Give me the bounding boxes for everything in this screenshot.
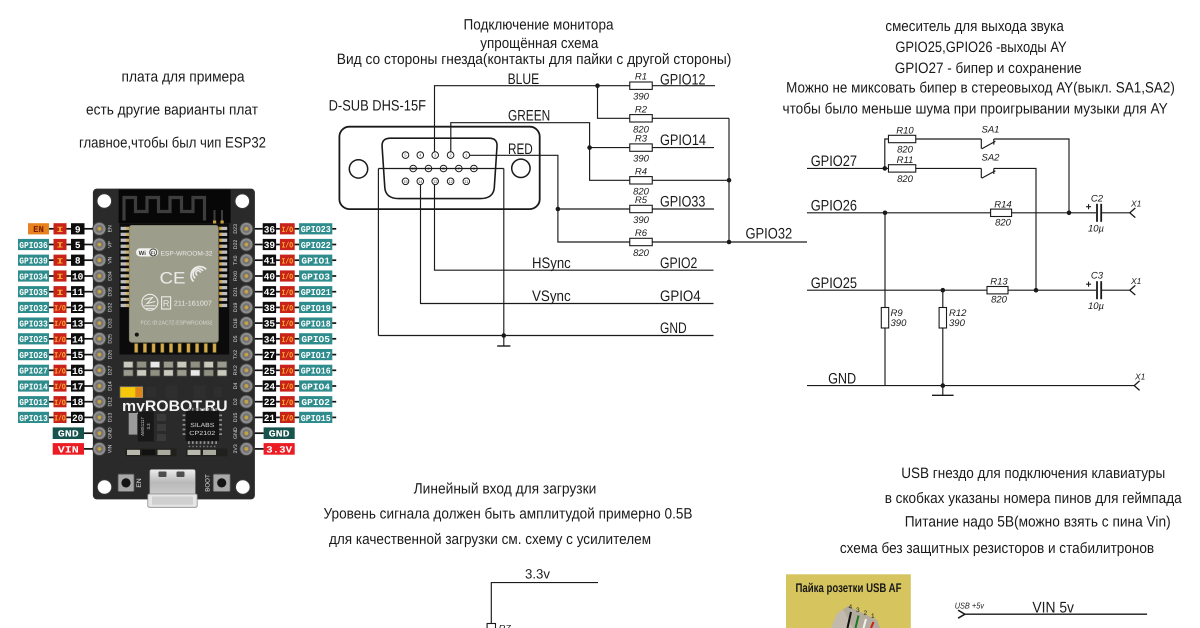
antenna region: [119, 190, 231, 224]
svg-text:упрощённая схема: упрощённая схема: [480, 35, 599, 52]
switch SA2: [981, 168, 995, 178]
svg-text:ESP-WROOM-32: ESP-WROOM-32: [161, 250, 213, 257]
svg-text:GPIO33: GPIO33: [19, 320, 48, 330]
svg-text:25: 25: [264, 366, 276, 377]
svg-text:211-161007: 211-161007: [174, 301, 212, 308]
svg-text:1: 1: [871, 613, 875, 620]
svg-text:D27: D27: [108, 365, 114, 375]
svg-text:GND: GND: [828, 370, 856, 387]
svg-text:D13: D13: [108, 413, 114, 423]
node R4 bus junction: [727, 178, 732, 183]
svg-text:8: 8: [75, 256, 81, 267]
ESP-WROOM-32 module U1: [120, 224, 230, 355]
svg-text:D4: D4: [233, 383, 239, 390]
svg-text:D19: D19: [233, 303, 239, 313]
svg-text:плата для примера: плата для примера: [122, 68, 246, 85]
connector J1 D-SUB DHS-15F outline: [339, 127, 539, 209]
svg-text:R7: R7: [499, 624, 512, 628]
svg-text:18: 18: [72, 397, 84, 408]
svg-text:I/O: I/O: [54, 305, 66, 314]
pin row right GPIO17: [255, 349, 336, 361]
wire R2 to right bus: [652, 117, 729, 119]
wire GND right drop: [503, 169, 505, 336]
svg-text:36: 36: [264, 224, 276, 235]
svg-text:R3: R3: [635, 134, 648, 145]
pin row left GPIO35: [18, 286, 93, 298]
wire RED branch down to R6: [558, 209, 630, 242]
svg-text:I/O: I/O: [282, 352, 294, 361]
svg-text:I/O: I/O: [282, 257, 294, 266]
photo: USB AF soldering: [786, 574, 911, 628]
connector pins row 1 (5,4,3,2,1): [402, 152, 469, 159]
CP2102 USB-UART chip: [183, 408, 222, 448]
svg-text:GPIO23: GPIO23: [301, 225, 331, 235]
wire RED to R5: [558, 208, 630, 210]
svg-text:GPIO39: GPIO39: [19, 257, 48, 267]
node GPIO27 junction: [883, 166, 888, 171]
resistor R12 390 vertical: [942, 290, 944, 385]
svg-text:GPIO2: GPIO2: [301, 398, 330, 408]
wire GPIO25 line: [807, 289, 1096, 291]
pin row left GND: [53, 427, 93, 439]
svg-text:D2: D2: [233, 398, 239, 405]
svg-text:главное,чтобы был чип ESP32: главное,чтобы был чип ESP32: [79, 135, 266, 152]
svg-text:5: 5: [75, 240, 81, 251]
pin row right GPIO18: [255, 318, 336, 330]
svg-text:10µ: 10µ: [1088, 301, 1105, 312]
svg-text:GND: GND: [269, 429, 290, 440]
mounting holes: [97, 194, 250, 495]
wire 3.3v rail: [491, 583, 598, 624]
svg-text:I: I: [57, 257, 64, 266]
svg-text:12: 12: [448, 179, 453, 184]
svg-text:GPIO12: GPIO12: [660, 71, 706, 88]
svg-text:RED: RED: [508, 141, 533, 158]
svg-text:R2: R2: [635, 104, 648, 115]
bottom SMD row: [126, 449, 228, 457]
svg-text:I/O: I/O: [54, 320, 66, 329]
svg-text:820: 820: [897, 174, 914, 185]
svg-text:R6: R6: [635, 228, 648, 239]
wire GND mixer line: [807, 385, 1134, 387]
wire R3 to GPIO14: [652, 147, 714, 149]
svg-text:I/O: I/O: [54, 383, 66, 392]
ground symbol mixer: [942, 386, 944, 396]
svg-text:EN: EN: [108, 225, 114, 232]
svg-text:TX2: TX2: [233, 350, 239, 360]
wire GREEN from pin2: [451, 123, 590, 152]
connector D shell: [382, 138, 497, 198]
wire BLUE to R1: [598, 85, 630, 87]
wire GND left drop: [377, 169, 379, 336]
ground symbol: [503, 336, 505, 347]
svg-text:I: I: [57, 226, 64, 235]
svg-text:9: 9: [75, 224, 81, 235]
svg-text:D5: D5: [233, 335, 239, 342]
svg-text:GPIO25: GPIO25: [19, 335, 48, 345]
svg-text:CP2102: CP2102: [189, 430, 216, 437]
svg-text:I/O: I/O: [282, 242, 294, 251]
svg-text:820: 820: [633, 248, 650, 259]
svg-text:GPIO32: GPIO32: [746, 226, 793, 243]
node RED junction: [556, 207, 561, 212]
svg-text:D14: D14: [108, 381, 114, 391]
svg-text:390: 390: [949, 318, 966, 329]
svg-text:GPIO17: GPIO17: [301, 351, 331, 361]
wire R11 to SA2: [916, 167, 982, 169]
pin row right GPIO22: [255, 239, 336, 251]
svg-text:390: 390: [633, 215, 650, 226]
svg-text:C2: C2: [1091, 193, 1104, 204]
pin row left GPIO26: [18, 349, 93, 361]
wire C3 to X1: [1101, 289, 1130, 291]
svg-text:чтобы было меньше шума при про: чтобы было меньше шума при проигрывании …: [783, 100, 1168, 117]
wire VSync from pin14: [421, 185, 714, 304]
svg-text:GPIO35: GPIO35: [19, 288, 48, 298]
svg-text:GND: GND: [233, 427, 239, 439]
svg-text:24: 24: [264, 382, 276, 393]
svg-text:GPIO16: GPIO16: [301, 367, 331, 377]
svg-text:390: 390: [633, 154, 650, 165]
svg-text:42: 42: [264, 287, 276, 298]
svg-text:GND: GND: [660, 320, 687, 337]
resistor R3 390: [630, 144, 653, 151]
svg-text:38: 38: [264, 303, 276, 314]
svg-text:R5: R5: [635, 195, 648, 206]
svg-text:HSync: HSync: [532, 255, 571, 272]
svg-text:Пайка розетки USB AF: Пайка розетки USB AF: [796, 581, 902, 595]
wire VIN 5v: [965, 613, 1147, 615]
svg-text:R10: R10: [896, 126, 914, 137]
svg-text:3.3: 3.3: [146, 423, 151, 430]
svg-text:15: 15: [403, 179, 408, 184]
svg-text:RX2: RX2: [233, 365, 239, 375]
svg-text:13: 13: [72, 319, 84, 330]
wire R1 to GPIO12: [652, 85, 715, 87]
svg-text:17: 17: [72, 382, 84, 393]
svg-text:820: 820: [995, 217, 1012, 228]
svg-text:GPIO36: GPIO36: [19, 241, 48, 251]
svg-text:RX0: RX0: [233, 271, 239, 281]
wire GREEN to R3: [590, 147, 630, 149]
svg-text:D25: D25: [108, 334, 114, 344]
svg-text:I/O: I/O: [282, 415, 294, 424]
svg-text:D12: D12: [108, 397, 114, 407]
resistor R11 820: [888, 165, 915, 172]
svg-text:820: 820: [897, 145, 914, 156]
svg-text:16: 16: [72, 366, 84, 377]
misc passives: [157, 414, 166, 441]
svg-text:в скобках указаны номера пинов: в скобках указаны номера пинов для геймп…: [885, 490, 1183, 507]
svg-text:I: I: [57, 242, 64, 251]
node C2 junction: [1067, 211, 1072, 216]
svg-text:Вид со стороны гнезда(контакты: Вид со стороны гнезда(контакты для пайки…: [337, 51, 732, 68]
connector X1 pin (C2): [1130, 208, 1136, 218]
pin row right GPIO19: [255, 302, 336, 314]
svg-text:20: 20: [72, 413, 84, 424]
svg-text:I/O: I/O: [54, 352, 66, 361]
pin row right GPIO21: [255, 286, 336, 298]
svg-text:GPIO19: GPIO19: [301, 304, 331, 314]
pin row right GPIO2: [255, 396, 336, 408]
pin row left GPIO36: [18, 239, 93, 251]
svg-text:VSync: VSync: [532, 288, 571, 305]
connector pins row 3 (15,14,13,12,11): [402, 178, 469, 185]
wire GPIO27 line: [807, 167, 888, 169]
svg-text:13: 13: [433, 179, 438, 184]
pin row right GPIO5: [255, 333, 336, 345]
svg-text:I/O: I/O: [54, 399, 66, 408]
svg-text:AMS1117: AMS1117: [140, 417, 145, 436]
svg-text:I/O: I/O: [54, 336, 66, 345]
wire SA2 to C3 node: [994, 168, 1036, 290]
pin row left EN: [28, 223, 93, 235]
svg-text:VIN 5v: VIN 5v: [1032, 599, 1074, 616]
svg-text:VIN: VIN: [58, 444, 79, 455]
svg-text:BLUE: BLUE: [508, 71, 540, 88]
pin row right GPIO23: [255, 223, 336, 235]
svg-text:GPIO27 - бипер и сохранение: GPIO27 - бипер и сохранение: [895, 60, 1082, 77]
svg-text:I/O: I/O: [282, 367, 294, 376]
node R6 bus junction: [727, 240, 732, 245]
pin row right None: [255, 443, 295, 455]
wire HSync from pin13: [435, 185, 714, 270]
svg-text:USB +5v: USB +5v: [955, 600, 985, 610]
svg-text:GPIO25: GPIO25: [811, 275, 857, 292]
svg-text:X1: X1: [1130, 198, 1142, 208]
pin row right GPIO4: [255, 380, 336, 392]
svg-text:11: 11: [72, 287, 84, 298]
svg-text:GPIO33: GPIO33: [660, 194, 705, 211]
wire right bus vertical: [728, 118, 730, 242]
svg-text:820: 820: [991, 295, 1008, 306]
svg-text:22: 22: [264, 397, 276, 408]
svg-text:GPIO3: GPIO3: [301, 272, 330, 282]
resistor R10 820: [888, 135, 915, 142]
svg-text:EN: EN: [33, 225, 44, 235]
svg-text:R14: R14: [994, 199, 1011, 210]
svg-text:I: I: [57, 273, 64, 282]
svg-text:D26: D26: [108, 350, 114, 360]
svg-text:D23: D23: [233, 224, 239, 234]
wire BLUE from pin3: [435, 86, 598, 152]
svg-text:3.3V: 3.3V: [266, 444, 292, 455]
wire R10 to SA1: [916, 138, 982, 140]
node GND junction: [502, 333, 507, 338]
connector screw hole left: [349, 160, 367, 178]
wire C2 to X1: [1101, 212, 1130, 214]
svg-text:Уровень сигнала должен быть ам: Уровень сигнала должен быть амплитудой п…: [324, 506, 693, 523]
connector X1 pin (C3): [1130, 285, 1136, 295]
EN button: [118, 474, 143, 491]
svg-text:CE: CE: [160, 270, 186, 288]
svg-text:R13: R13: [990, 277, 1008, 288]
svg-text:GPIO14: GPIO14: [19, 382, 48, 392]
svg-text:смеситель для выхода звука: смеситель для выхода звука: [885, 18, 1064, 35]
pin row left GPIO39: [18, 255, 93, 267]
svg-text:GPIO13: GPIO13: [19, 414, 48, 424]
svg-text:D15: D15: [233, 413, 239, 423]
wire BLUE branch down to R2: [598, 86, 630, 119]
micro USB connector: [148, 469, 197, 507]
AMS1117 regulator: [129, 412, 154, 442]
svg-text:I/O: I/O: [282, 289, 294, 298]
svg-text:R11: R11: [897, 155, 914, 166]
resistor R4 820: [630, 177, 653, 184]
svg-text:GPIO12: GPIO12: [19, 398, 48, 408]
capacitor C3 10u: [1097, 281, 1101, 299]
wire R5 to GPIO33: [652, 208, 714, 210]
svg-text:для качественной загрузки см.: для качественной загрузки см. схему с ус…: [329, 531, 651, 548]
svg-text:Можно не миксовать бипер в сте: Можно не миксовать бипер в стереовыход A…: [786, 80, 1175, 97]
switch SA1: [981, 139, 995, 149]
resistor R9 390 vertical: [884, 213, 886, 386]
wire SA1 to C2 node: [994, 139, 1069, 213]
svg-text:X1: X1: [1130, 276, 1142, 286]
svg-text:USB гнездо для подключения кла: USB гнездо для подключения клавиатуры: [901, 465, 1165, 482]
svg-text:I/O: I/O: [54, 367, 66, 376]
svg-text:VP: VP: [108, 241, 114, 248]
node GREEN junction: [587, 145, 592, 150]
svg-text:I: I: [57, 289, 64, 298]
svg-text:I/O: I/O: [282, 226, 294, 235]
svg-text:Подключение монитора: Подключение монитора: [464, 17, 615, 34]
svg-text:SA1: SA1: [982, 125, 1000, 136]
svg-text:GPIO4: GPIO4: [660, 288, 701, 305]
svg-text:D34: D34: [108, 271, 114, 281]
pin row right GPIO15: [255, 412, 336, 424]
svg-text:10µ: 10µ: [1088, 224, 1105, 235]
node GPIO26 junction: [883, 211, 888, 216]
pin row left GPIO33: [18, 318, 93, 330]
svg-text:41: 41: [264, 256, 276, 267]
svg-text:D35: D35: [108, 287, 114, 297]
svg-text:есть другие варианты плат: есть другие варианты плат: [86, 101, 258, 118]
svg-text:21: 21: [264, 413, 276, 424]
svg-text:FCC ID:2AC7Z-ESPWROOM32: FCC ID:2AC7Z-ESPWROOM32: [141, 320, 213, 326]
small transistors: [146, 386, 222, 399]
svg-text:GPIO18: GPIO18: [301, 320, 331, 330]
node R12 junction: [941, 288, 946, 293]
pin row right None: [255, 427, 295, 439]
svg-text:GPIO27: GPIO27: [811, 153, 857, 170]
svg-text:I/O: I/O: [282, 320, 294, 329]
svg-text:14: 14: [72, 334, 84, 345]
svg-text:D18: D18: [233, 318, 239, 328]
svg-text:14: 14: [418, 179, 423, 184]
wire GREEN branch down to R4: [590, 148, 630, 181]
capacitor C2 10u: [1097, 204, 1101, 222]
svg-text:I/O: I/O: [282, 336, 294, 345]
board silk pin names: [108, 224, 239, 454]
svg-text:GPIO2: GPIO2: [660, 255, 697, 272]
connector screw hole right: [512, 159, 530, 177]
svg-text:2: 2: [864, 610, 868, 617]
node BLUE junction: [595, 83, 600, 88]
svg-text:D33: D33: [108, 318, 114, 328]
svg-text:35: 35: [264, 319, 276, 330]
pin row left GPIO14: [18, 380, 93, 392]
svg-text:3V3: 3V3: [233, 444, 239, 453]
svg-text:R: R: [163, 298, 170, 308]
svg-text:10: 10: [72, 272, 84, 283]
pin row left GPIO12: [18, 396, 93, 408]
wire GND row2 bus: [378, 168, 503, 170]
svg-text:3.3v: 3.3v: [525, 567, 550, 582]
svg-text:R1: R1: [635, 72, 647, 83]
svg-text:I/O: I/O: [282, 273, 294, 282]
wire R4 to right bus: [652, 179, 729, 181]
connector X1 pin (GND): [1134, 381, 1139, 391]
svg-text:X1: X1: [1134, 371, 1146, 381]
board pin pads: [93, 222, 253, 455]
svg-text:Fi: Fi: [151, 251, 155, 256]
svg-text:SILABS: SILABS: [190, 422, 214, 429]
svg-text:Wi: Wi: [139, 250, 147, 257]
pin row left GPIO34: [18, 270, 93, 282]
pin row left GPIO13: [18, 412, 93, 424]
pin row left GPIO27: [18, 365, 93, 377]
svg-text:I/O: I/O: [282, 399, 294, 408]
svg-text:I/O: I/O: [282, 305, 294, 314]
svg-text:D21: D21: [233, 287, 239, 297]
svg-text:GPIO1: GPIO1: [301, 257, 330, 267]
svg-text:15: 15: [72, 350, 84, 361]
svg-text:GPIO21: GPIO21: [301, 288, 332, 298]
pin row left GPIO32: [18, 302, 93, 314]
svg-text:GPIO26: GPIO26: [811, 197, 857, 214]
SMD component rows: [124, 362, 227, 377]
wire GPIO26 line: [807, 212, 1096, 214]
svg-text:GPIO15: GPIO15: [301, 414, 331, 424]
svg-text:R4: R4: [635, 166, 647, 177]
svg-text:схема без защитных резисторов: схема без защитных резисторов и стабилит…: [840, 540, 1154, 557]
svg-text:34: 34: [264, 334, 276, 345]
wire R10 branch: [885, 139, 888, 168]
svg-text:GPIO32: GPIO32: [19, 304, 48, 314]
svg-text:3: 3: [856, 607, 860, 614]
ESP32 devkit board body: [93, 189, 255, 500]
pin row left VIN: [53, 443, 93, 455]
svg-text:VIN: VIN: [108, 444, 114, 453]
svg-text:GPIO27: GPIO27: [19, 367, 48, 377]
resistor R2 820: [630, 115, 653, 122]
pin row right GPIO1: [255, 255, 336, 267]
pin row right GPIO16: [255, 365, 336, 377]
power LED: [120, 387, 143, 398]
svg-text:I/O: I/O: [282, 383, 294, 392]
svg-text:GPIO22: GPIO22: [301, 241, 331, 251]
pin row right GPIO3: [255, 270, 336, 282]
resistor R6 820: [630, 238, 653, 245]
svg-text:Линейный вход для загрузки: Линейный вход для загрузки: [414, 481, 597, 498]
svg-text:39: 39: [264, 240, 276, 251]
svg-text:GPIO4: GPIO4: [301, 382, 330, 392]
svg-text:C3: C3: [1091, 271, 1104, 282]
resistor R7 (partial): [487, 624, 495, 628]
svg-text:GND: GND: [58, 429, 79, 440]
svg-text:390: 390: [633, 92, 650, 103]
svg-text:GPIO25,GPIO26 -выходы AY: GPIO25,GPIO26 -выходы AY: [895, 39, 1066, 56]
node GND R12 junction: [941, 383, 946, 388]
svg-text:390: 390: [891, 318, 908, 329]
connector pins row 2 (10,9,8,7,6): [410, 165, 477, 172]
svg-text:GPIO26: GPIO26: [19, 351, 48, 361]
resistor R13 820: [987, 287, 1008, 294]
svg-text:D-SUB DHS-15F: D-SUB DHS-15F: [329, 98, 426, 115]
svg-text:GREEN: GREEN: [508, 108, 550, 125]
svg-text:GND: GND: [108, 427, 114, 439]
